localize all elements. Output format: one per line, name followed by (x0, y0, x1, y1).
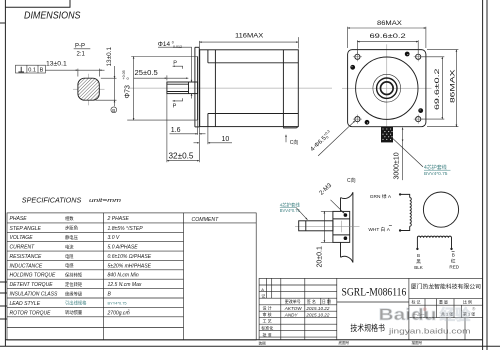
svg-text:1.6: 1.6 (171, 127, 181, 134)
page border bottom inner (5, 339, 482, 341)
svg-text:AKTOW: AKTOW (284, 306, 302, 311)
mounting hole bottom-right (414, 115, 423, 124)
svg-text:BYY4*0.75: BYY4*0.75 (108, 301, 127, 306)
svg-text:工 艺: 工 艺 (263, 319, 272, 324)
svg-text:116MAX: 116MAX (235, 33, 264, 40)
svg-text:绝缘等级: 绝缘等级 (65, 290, 83, 297)
dim phi14 label (158, 40, 192, 98)
svg-text:13±0.1: 13±0.1 (106, 47, 113, 67)
svg-text:2015.10.22: 2015.10.22 (305, 312, 329, 317)
title block small texts (261, 287, 331, 338)
svg-text:3000±10: 3000±10 (394, 152, 401, 179)
spec table english labels (10, 216, 58, 316)
svg-text:86MAX: 86MAX (450, 68, 457, 103)
svg-text:Baidu: Baidu (379, 306, 437, 324)
svg-text:0.6±10% Ω/PHASE: 0.6±10% Ω/PHASE (108, 254, 152, 260)
svg-text:签 名: 签 名 (307, 298, 316, 304)
page border right inner (482, 0, 484, 350)
page border bottom outer (0, 345, 500, 347)
svg-text:840 N.cm Min: 840 N.cm Min (108, 273, 139, 279)
dim 86MAX top (348, 20, 426, 48)
svg-text:P: P (173, 103, 177, 109)
spec table chinese labels (65, 215, 87, 316)
svg-text:审 核: 审 核 (263, 311, 272, 317)
dim 20±0.1 (317, 211, 333, 267)
tie-rod screw dots (350, 52, 423, 125)
svg-text:SPECIFICATIONS: SPECIFICATIONS (22, 196, 82, 205)
svg-text:B: B (112, 108, 115, 113)
svg-text:B: B (452, 253, 455, 258)
svg-text:BVV4*0.75: BVV4*0.75 (424, 171, 448, 177)
cable note (front view) with leader (393, 139, 451, 178)
svg-text:PHASE: PHASE (10, 216, 28, 222)
page border right outer (486, 0, 488, 350)
svg-text:相数: 相数 (65, 215, 74, 222)
svg-text:2 PHASE: 2 PHASE (107, 216, 130, 222)
svg-text:记: 记 (261, 292, 265, 298)
svg-text:2-M3: 2-M3 (318, 182, 333, 197)
front view centerlines (342, 87, 432, 89)
svg-text:69.6±0.2: 69.6±0.2 (370, 33, 407, 40)
label 2-M3 with leader (318, 182, 344, 214)
dim 13±0.1 horizontal (section) (45, 61, 104, 77)
svg-text:ROTOR TORQUE: ROTOR TORQUE (10, 310, 52, 316)
svg-text:RESISTANCE: RESISTANCE (10, 254, 43, 260)
svg-text:STEP ANGLE: STEP ANGLE (10, 226, 42, 232)
svg-text:装捌: 装捌 (259, 340, 267, 345)
pilot boss phi73 (195, 47, 199, 127)
svg-text:0: 0 (172, 40, 174, 44)
svg-text:SGRL-M086116: SGRL-M086116 (342, 284, 407, 298)
dim 86MAX right (427, 50, 458, 127)
svg-text:5.0 A/PHASE: 5.0 A/PHASE (108, 245, 139, 251)
shaft cross-section (hatched, flats) (78, 78, 99, 100)
svg-text:CURRENT: CURRENT (10, 245, 36, 251)
left margin tick (0, 22, 5, 24)
shaft (side) (167, 82, 198, 94)
svg-text:®: ® (472, 306, 476, 312)
dim 3000±10 (394, 128, 403, 181)
svg-text:32±0.5: 32±0.5 (169, 152, 194, 161)
svg-text:保持转矩: 保持转矩 (65, 272, 83, 279)
svg-text:INSULATION CLASS: INSULATION CLASS (10, 292, 58, 298)
tolerance frame (perpendicularity 0.1 B) (16, 65, 46, 73)
svg-text:DIMENSIONS: DIMENSIONS (24, 11, 81, 22)
svg-text:日 期: 日 期 (322, 298, 331, 304)
svg-text:WHT 白 A: WHT 白 A (368, 226, 390, 233)
svg-text:转动惯量: 转动惯量 (65, 309, 83, 316)
shaft section centerlines (73, 88, 105, 90)
rotor circle (423, 192, 458, 227)
cable (view C) (299, 221, 333, 231)
svg-text:引出线规格: 引出线规格 (65, 300, 87, 307)
centerline (view C) (295, 226, 360, 228)
side view centerline (128, 87, 332, 89)
svg-text:标准化: 标准化 (261, 324, 273, 330)
motor body (side) (200, 50, 299, 128)
svg-text:C向: C向 (347, 177, 356, 184)
svg-text:静电压: 静电压 (65, 234, 79, 241)
datum B balloon (111, 107, 117, 113)
title block cell labels (412, 299, 476, 316)
svg-text:B: B (417, 253, 420, 258)
svg-text:RED: RED (449, 264, 459, 269)
section P-P label (74, 44, 91, 58)
svg-text:步距角: 步距角 (65, 225, 78, 232)
mounting hole bottom-left (353, 115, 362, 124)
svg-text:2700g.cm: 2700g.cm (107, 310, 130, 316)
shaft circles (373, 74, 401, 102)
dim 69.6±0.2 right (422, 57, 445, 119)
cable gland block (view C) (333, 211, 350, 242)
spec table values (107, 216, 152, 316)
svg-text:10: 10 (222, 136, 230, 143)
svg-text:经验: 经验 (440, 306, 472, 324)
pilot circle phi73 (356, 57, 418, 119)
svg-text:更改单号: 更改单号 (285, 298, 301, 304)
svg-text:COMMENT: COMMENT (192, 217, 220, 223)
svg-text:P: P (173, 61, 177, 67)
front flange square (348, 50, 426, 127)
svg-text:B: B (40, 68, 44, 74)
svg-text:BLK: BLK (414, 265, 424, 270)
mounting hole top-right (414, 52, 423, 61)
dim phi73 (122, 57, 198, 121)
svg-text:2:1: 2:1 (77, 51, 86, 57)
title block grid (259, 278, 483, 339)
svg-text:jingyan.baidu.com: jingyan.baidu.com (388, 327, 471, 336)
svg-text:Φ73: Φ73 (125, 85, 132, 98)
dim 10 (194, 127, 233, 145)
svg-text:LEAD STYLE: LEAD STYLE (10, 301, 41, 307)
svg-text:12.5 N.cm Max: 12.5 N.cm Max (108, 282, 142, 288)
motor body break outline (view C) (341, 192, 353, 262)
mounting hole top-left (353, 52, 362, 61)
svg-text:INDUCTANCE: INDUCTANCE (10, 263, 43, 269)
dim 13±0.1 vertical (section) (96, 47, 117, 107)
view C direction marker (286, 135, 298, 146)
top-left zone notch (5, 0, 70, 7)
svg-text:厦门热龙智能科技有限公司: 厦门热龙智能科技有限公司 (411, 282, 481, 290)
bottom margin tiny labels (259, 340, 423, 346)
svg-text:底图号: 底图号 (339, 340, 350, 345)
svg-text:B: B (108, 292, 112, 298)
svg-text:25±0.5: 25±0.5 (135, 68, 158, 77)
coil B (horizontal) (416, 236, 453, 250)
svg-text:C向: C向 (290, 139, 299, 146)
svg-text:1.8±5% °/STEP: 1.8±5% °/STEP (108, 226, 144, 232)
svg-text:5±20% mH/PHASE: 5±20% mH/PHASE (108, 263, 152, 269)
svg-text:批 准: 批 准 (263, 332, 272, 338)
svg-text:A: A (261, 287, 264, 292)
svg-text:DETENT TORQUE: DETENT TORQUE (10, 282, 54, 288)
svg-text:重 量: 重 量 (439, 299, 448, 304)
svg-text:设 计: 设 计 (263, 305, 272, 311)
svg-text:电流: 电流 (65, 243, 74, 250)
svg-text:GRN 绿 A: GRN 绿 A (370, 193, 392, 200)
phase B labels (414, 251, 460, 269)
svg-text:13±0.1: 13±0.1 (46, 61, 67, 68)
page border left (4, 0, 6, 346)
svg-text:20±0.1: 20±0.1 (317, 246, 324, 267)
svg-text:描图号: 描图号 (412, 340, 423, 345)
svg-text:ANDY: ANDY (284, 312, 299, 317)
svg-text:4芯护套线: 4芯护套线 (424, 164, 447, 171)
svg-text:红: 红 (451, 257, 456, 263)
cable note (view C) with leader (280, 201, 308, 219)
svg-text:-0.012: -0.012 (172, 45, 182, 49)
svg-text:0: 0 (126, 78, 130, 80)
svg-text:电感: 电感 (65, 262, 74, 268)
cable gland (hatched block) (381, 127, 393, 143)
svg-text:标 记: 标 记 (412, 299, 421, 304)
svg-text:unit=mm: unit=mm (89, 198, 122, 204)
svg-text:电阻: 电阻 (65, 253, 74, 260)
section P arrows (173, 61, 183, 110)
baidu watermark (379, 306, 477, 336)
spec table grid (7, 213, 256, 340)
M3 hole dots (344, 213, 348, 217)
svg-text:3.0 V: 3.0 V (108, 235, 120, 241)
svg-text:69.6±0.2: 69.6±0.2 (434, 68, 441, 110)
svg-text:0.1: 0.1 (28, 68, 36, 74)
label 4-phi6.5 with leader (309, 121, 355, 156)
dim 1.6 (170, 120, 206, 135)
svg-text:HOLDING TORQUE: HOLDING TORQUE (10, 273, 57, 279)
svg-text:比 例: 比 例 (463, 299, 472, 304)
dim 116MAX (200, 33, 299, 49)
dim 32±0.5 (167, 94, 199, 163)
svg-text:2015.10.22: 2015.10.22 (305, 306, 329, 311)
dim 25±0.5 (134, 68, 189, 81)
coil A (vertical) (399, 193, 411, 232)
dim 69.6±0.2 top (357, 33, 418, 54)
svg-text:2: 2 (127, 309, 130, 313)
svg-text:VOLTAGE: VOLTAGE (10, 235, 34, 241)
svg-text:定位转矩: 定位转矩 (65, 281, 83, 288)
svg-text:86MAX: 86MAX (377, 20, 403, 27)
